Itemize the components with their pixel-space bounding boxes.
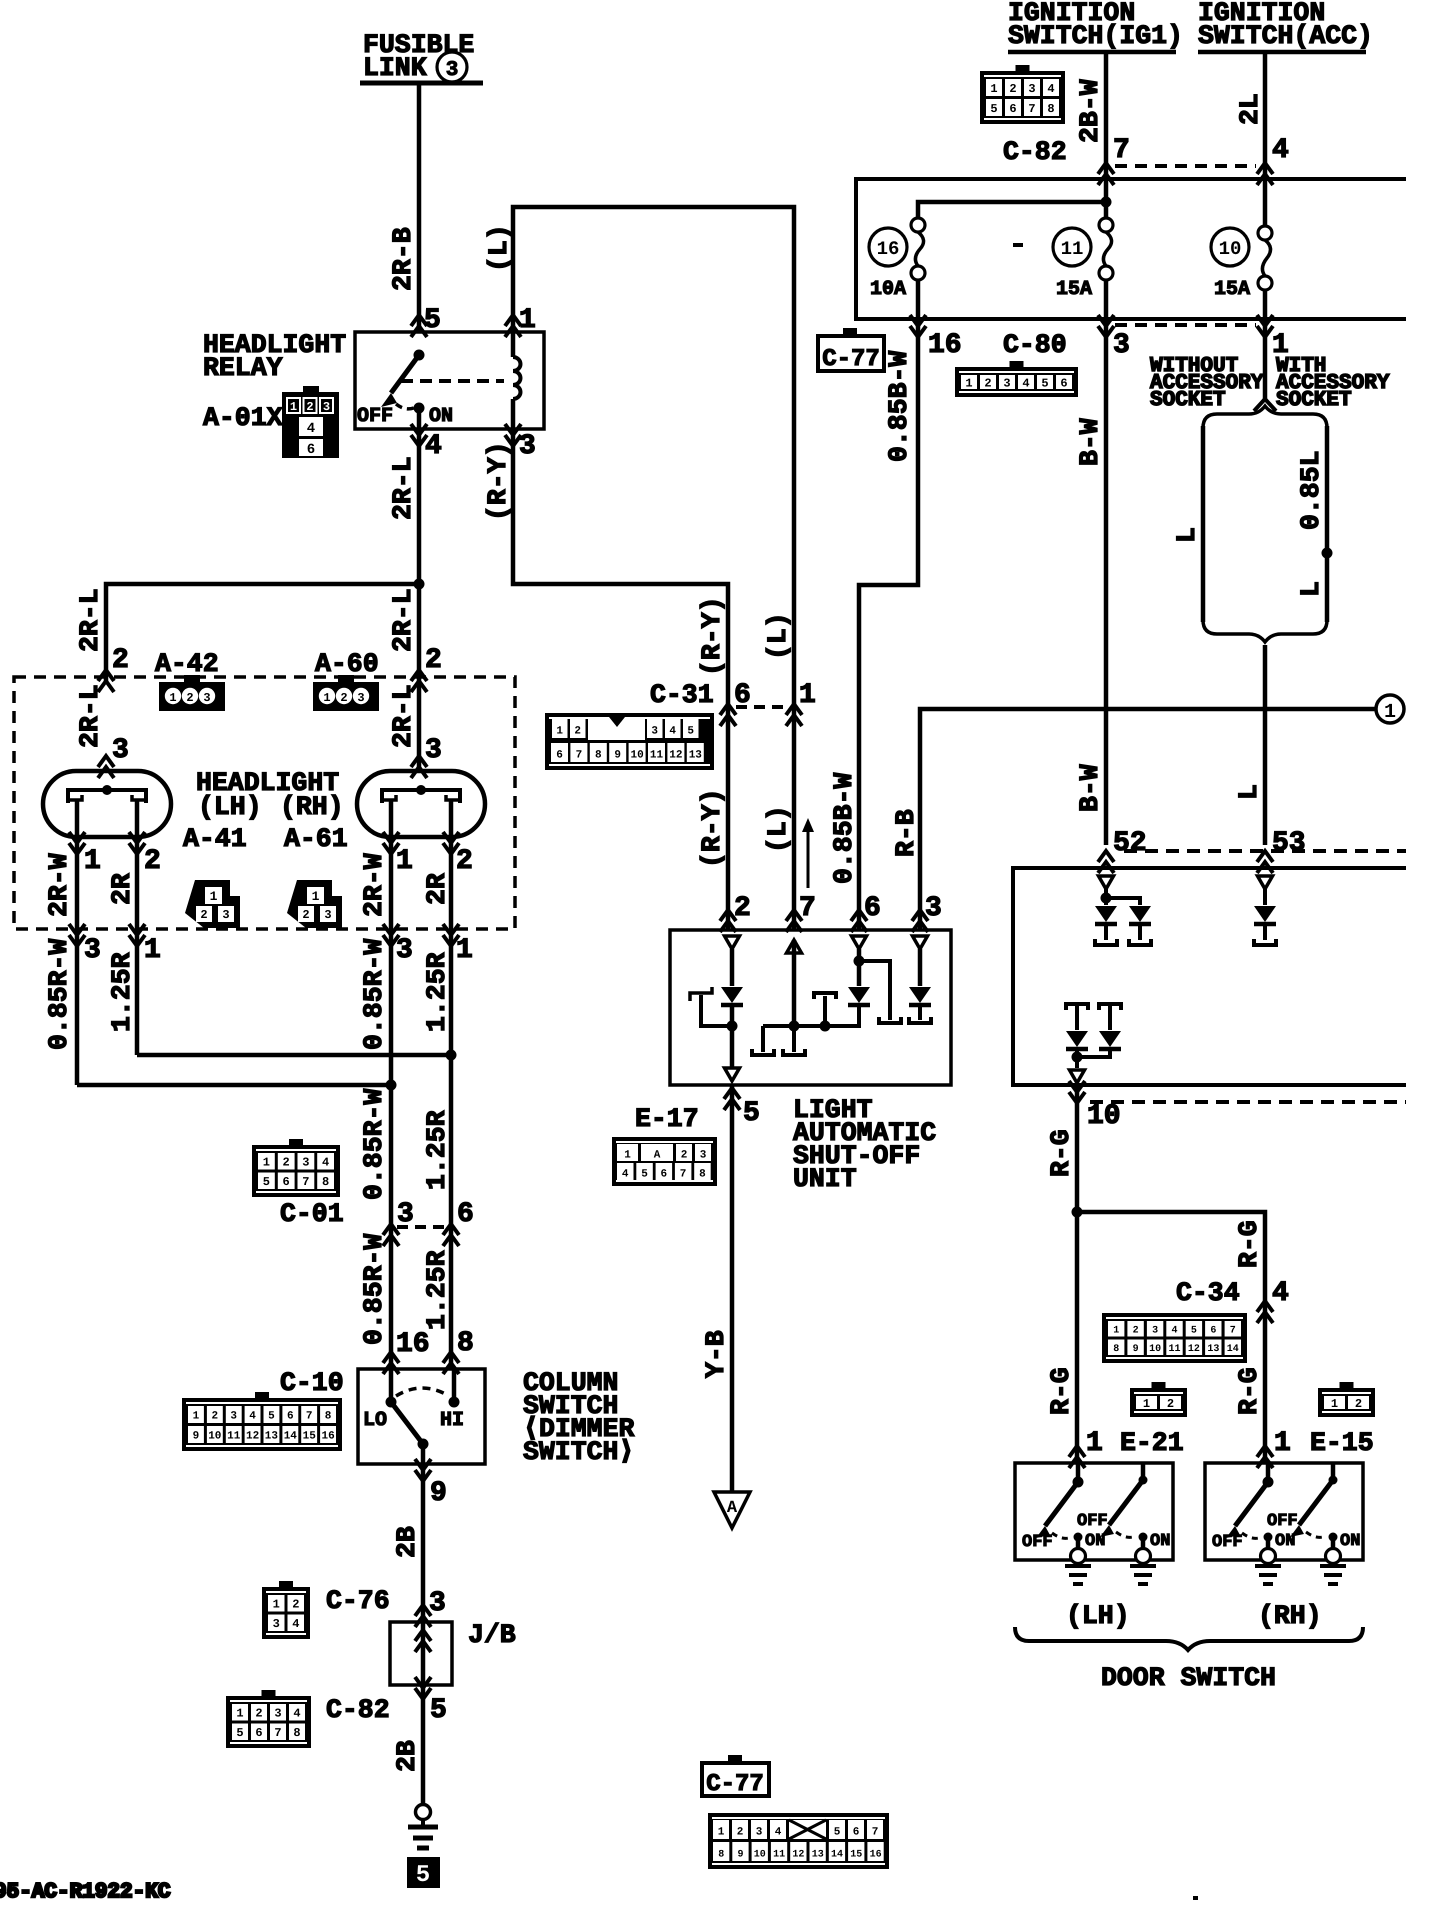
pin 3 of lamp dashed box RH: [383, 924, 399, 946]
wire 1.25R merge LH to RH: [137, 1053, 451, 1058]
svg-text:UNIT: UNIT: [793, 1164, 857, 1194]
pin 3 exit of junction block: [1098, 315, 1114, 337]
dashed edge of ETACS lower: [1090, 1100, 1406, 1104]
ETACS internal lower diode pair: [1066, 1004, 1088, 1010]
svg-text:7: 7: [872, 1827, 879, 1839]
wire 2R-L relay pin 4 down to junction: [417, 429, 422, 584]
wire (R-Y) from relay pin 3: [513, 429, 728, 930]
wire 2R-L right branch down: [417, 584, 422, 771]
connector C-82 lower icon: [226, 1696, 311, 1748]
svg-text:2B: 2B: [392, 1526, 422, 1558]
svg-text:J/B: J/B: [468, 1620, 516, 1650]
shut-off unit internal pin6 branch: [852, 936, 867, 949]
svg-text:1: 1: [990, 82, 997, 96]
svg-text:2: 2: [456, 846, 473, 877]
svg-text:6: 6: [255, 1726, 262, 1740]
wire 2R headlight RH pin2: [449, 837, 454, 1055]
svg-text:(LH): (LH): [1066, 1601, 1130, 1631]
svg-text:(L): (L): [763, 805, 793, 853]
svg-text:6: 6: [307, 442, 315, 458]
svg-text:2: 2: [211, 1411, 218, 1423]
svg-text:5: 5: [263, 1175, 270, 1189]
pin 3 of lamp dashed box LH: [69, 924, 85, 946]
svg-text:8: 8: [1113, 1344, 1119, 1355]
svg-text:10A: 10A: [870, 278, 906, 301]
svg-text:8: 8: [322, 1175, 329, 1189]
svg-text:1: 1: [84, 846, 101, 877]
svg-text:13: 13: [1207, 1344, 1219, 1355]
svg-text:4: 4: [1272, 135, 1289, 166]
wire from pin 1 to option split: [1263, 319, 1268, 399]
pin 5 of shut-off unit: [724, 1088, 740, 1110]
wire 2R-B from fusible link to relay pin 5: [417, 83, 422, 332]
svg-text:2: 2: [340, 691, 347, 705]
svg-text:R-G: R-G: [1046, 1367, 1076, 1415]
svg-text:5: 5: [236, 1726, 243, 1740]
svg-text:SOCKET: SOCKET: [1150, 389, 1226, 412]
door switch LH box: [1015, 1463, 1173, 1560]
wire 2R headlight LH pin2: [135, 837, 140, 1055]
svg-text:Y-B: Y-B: [701, 1330, 731, 1378]
svg-text:HI: HI: [440, 1409, 464, 1432]
svg-text:14: 14: [1227, 1344, 1239, 1355]
svg-text:LINK: LINK: [363, 53, 427, 83]
svg-text:9: 9: [737, 1850, 743, 1861]
svg-text:2R-W: 2R-W: [359, 853, 389, 917]
option wire L without socket: [1201, 426, 1206, 622]
svg-text:(L): (L): [484, 224, 514, 272]
svg-text:11: 11: [650, 750, 664, 762]
svg-text:C-80: C-80: [1003, 330, 1067, 360]
svg-text:2: 2: [306, 400, 313, 414]
svg-text:1: 1: [1113, 1325, 1119, 1336]
stray mark: [1013, 243, 1023, 247]
svg-text:1: 1: [556, 726, 563, 738]
svg-text:7: 7: [302, 1175, 309, 1189]
svg-text:1: 1: [456, 935, 473, 966]
diode D2 in shut-off unit: [848, 987, 870, 1003]
svg-text:4: 4: [307, 421, 315, 437]
svg-text:R-B: R-B: [891, 809, 921, 857]
svg-text:1: 1: [312, 889, 320, 904]
svg-text:(R-Y): (R-Y): [483, 441, 513, 521]
svg-text:5: 5: [641, 1169, 648, 1181]
wire (L) from relay pin 1 to shut-off unit pin 7: [513, 207, 794, 930]
svg-text:4: 4: [775, 1827, 782, 1839]
svg-text:3: 3: [1028, 82, 1035, 96]
svg-text:A: A: [727, 1499, 738, 1518]
svg-text:ON: ON: [429, 405, 453, 428]
svg-text:2: 2: [282, 1156, 289, 1170]
svg-text:15: 15: [303, 1431, 317, 1443]
svg-text:2R-L: 2R-L: [75, 684, 105, 748]
svg-text:C-34: C-34: [1176, 1278, 1240, 1308]
node 1 circle: [1376, 695, 1404, 723]
svg-text:R-G: R-G: [1234, 1220, 1264, 1268]
svg-text:1: 1: [169, 691, 176, 705]
svg-text:1: 1: [236, 1707, 243, 1721]
svg-text:16: 16: [396, 1329, 430, 1360]
svg-text:3: 3: [273, 1617, 280, 1631]
pin 1 of lamp dashed box RH2: [443, 924, 459, 946]
svg-text:1.25R: 1.25R: [422, 952, 452, 1032]
svg-text:A-01X: A-01X: [203, 403, 283, 433]
svg-text:E-17: E-17: [635, 1104, 699, 1134]
svg-text:9: 9: [614, 750, 621, 762]
svg-text:3: 3: [203, 691, 210, 705]
svg-text:C-77: C-77: [706, 1771, 764, 1798]
svg-text:2B-W: 2B-W: [1075, 79, 1105, 143]
door switch group brace: [1015, 1627, 1363, 1650]
light automatic shut-off unit box: [670, 930, 951, 1085]
svg-text:1: 1: [263, 1156, 270, 1170]
dashed edge of ETACS upper: [1124, 849, 1406, 853]
dimmer switch internals: [389, 1369, 394, 1402]
wire 1.25R down to dimmer switch: [449, 1055, 454, 1369]
svg-text:1: 1: [193, 1411, 200, 1423]
dashed link IG1-ACC: [1115, 164, 1256, 168]
svg-text:4: 4: [622, 1169, 629, 1181]
svg-text:8: 8: [457, 1328, 474, 1359]
headlight LH bulb A-41: [43, 771, 171, 837]
svg-text:7: 7: [680, 1169, 687, 1181]
svg-text:3: 3: [651, 726, 658, 738]
svg-text:3: 3: [324, 908, 331, 922]
dashed option box around headlights: [14, 677, 515, 929]
connector C-80 icon: [955, 367, 1078, 397]
connector icon A-01X: [282, 392, 339, 458]
svg-text:1: 1: [1274, 1428, 1291, 1459]
fuse 10: [1258, 226, 1272, 240]
svg-text:16: 16: [321, 1431, 334, 1443]
svg-text:1.25R: 1.25R: [107, 952, 137, 1032]
pin 5 below J/B: [415, 1677, 431, 1699]
svg-text:L: L: [1296, 581, 1326, 597]
junction dot on 0.85L wire: [1322, 548, 1333, 559]
svg-text:14: 14: [284, 1431, 298, 1443]
svg-text:3: 3: [396, 935, 413, 966]
svg-text:B-W: B-W: [1075, 418, 1105, 466]
svg-text:OFF: OFF: [1212, 1533, 1243, 1552]
svg-text:16: 16: [870, 1850, 882, 1861]
svg-text:1: 1: [965, 376, 972, 390]
svg-text:4: 4: [1171, 1325, 1177, 1336]
svg-text:3: 3: [756, 1827, 763, 1839]
svg-text:2R-L: 2R-L: [388, 456, 418, 520]
svg-text:13: 13: [265, 1431, 279, 1443]
svg-text:3: 3: [1113, 330, 1130, 361]
svg-text:2: 2: [292, 1598, 299, 1612]
svg-text:7: 7: [274, 1726, 281, 1740]
svg-text:C-10: C-10: [280, 1368, 344, 1398]
svg-text:1: 1: [718, 1827, 725, 1839]
svg-text:5: 5: [834, 1827, 841, 1839]
svg-text:3: 3: [302, 1156, 309, 1170]
svg-text:LO: LO: [363, 1409, 387, 1432]
svg-text:R-G: R-G: [1234, 1367, 1264, 1415]
svg-text:2R-L: 2R-L: [75, 588, 105, 652]
svg-text:8: 8: [293, 1726, 300, 1740]
svg-text:10: 10: [754, 1850, 766, 1861]
dashed link C-01 pins: [397, 1225, 445, 1229]
svg-text:10: 10: [1149, 1344, 1161, 1355]
svg-text:7: 7: [576, 750, 583, 762]
internal output arrow to pin 5: [725, 1068, 740, 1081]
svg-text:A-60: A-60: [315, 649, 379, 679]
svg-text:16: 16: [928, 330, 962, 361]
pin 10 of ETACS: [1069, 1081, 1085, 1103]
svg-text:15A: 15A: [1056, 278, 1092, 301]
svg-text:2: 2: [737, 1827, 744, 1839]
svg-text:3: 3: [1152, 1325, 1158, 1336]
svg-text:6: 6: [853, 1827, 860, 1839]
svg-text:5: 5: [430, 1695, 447, 1726]
svg-text:2R-L: 2R-L: [388, 684, 418, 748]
svg-text:5: 5: [416, 1862, 430, 1889]
connector icon A-41: [185, 880, 240, 928]
svg-text:11: 11: [1061, 238, 1084, 260]
svg-text:2R-L: 2R-L: [388, 588, 418, 652]
connector C-77 upper box: [818, 336, 884, 371]
svg-text:9: 9: [1133, 1344, 1139, 1355]
fuse 11: [1104, 218, 1109, 219]
connector C-82 upper icon: [980, 71, 1065, 124]
svg-text:12: 12: [1188, 1344, 1200, 1355]
svg-text:6: 6: [287, 1411, 294, 1423]
connector C-77 lower box: [702, 1763, 769, 1796]
svg-text:0.85R-W: 0.85R-W: [359, 1234, 389, 1345]
svg-text:53: 53: [1272, 828, 1306, 859]
wire Y-B from shut-off unit: [730, 1085, 735, 1492]
svg-text:2: 2: [1133, 1325, 1139, 1336]
svg-text:5: 5: [1191, 1325, 1197, 1336]
svg-text:5: 5: [268, 1411, 275, 1423]
svg-text:10: 10: [1219, 238, 1242, 260]
svg-text:A-42: A-42: [155, 649, 219, 679]
svg-text:SWITCH⟩: SWITCH⟩: [523, 1437, 634, 1467]
svg-text:1.25R: 1.25R: [422, 1110, 452, 1190]
svg-text:B-W: B-W: [1075, 764, 1105, 812]
internal hook symbols: [761, 1026, 765, 1052]
svg-text:2: 2: [984, 376, 991, 390]
svg-text:L: L: [1172, 527, 1202, 543]
wire 0.85R-W down to dimmer switch: [389, 1085, 394, 1369]
svg-text:4: 4: [1272, 1278, 1289, 1309]
svg-text:13: 13: [689, 750, 703, 762]
svg-text:1.25R: 1.25R: [422, 1250, 452, 1330]
shut-off unit internal input pin2: [725, 936, 740, 949]
svg-text:(R-Y): (R-Y): [697, 788, 727, 868]
pin 1 of headlight LH: [69, 832, 85, 854]
door switch RH box: [1205, 1463, 1363, 1560]
svg-text:2R-W: 2R-W: [44, 853, 74, 917]
svg-text:2: 2: [1167, 1397, 1174, 1411]
relay internal switch: [414, 350, 425, 361]
option wire 0.85L with socket: [1325, 426, 1330, 622]
ETACS unit box: [1013, 868, 1406, 1085]
svg-text:OFF: OFF: [357, 405, 393, 428]
svg-text:1: 1: [1331, 1397, 1338, 1411]
svg-text:8: 8: [1047, 102, 1054, 116]
fuse 16: [911, 218, 925, 232]
svg-text:(R-Y): (R-Y): [697, 596, 727, 676]
svg-text:2: 2: [302, 908, 309, 922]
svg-text:OFF: OFF: [1077, 1512, 1108, 1531]
svg-text:2: 2: [186, 691, 193, 705]
svg-text:1: 1: [1086, 1428, 1103, 1459]
wire 2B to ground: [421, 1685, 426, 1806]
svg-text:R-G: R-G: [1046, 1129, 1076, 1177]
dashed link C-31 pins: [736, 705, 786, 709]
internal bracket left of D1: [701, 995, 732, 1026]
shut-off unit internal pin3 branch: [913, 936, 928, 949]
pin 1 exit of junction block: [1257, 315, 1273, 337]
dashed link C-80 pins: [1115, 323, 1256, 327]
svg-text:A-61: A-61: [284, 824, 348, 854]
svg-text:ON: ON: [1340, 1532, 1360, 1551]
svg-text:1: 1: [396, 846, 413, 877]
svg-text:7: 7: [1230, 1325, 1236, 1336]
wire L continues down: [1263, 645, 1268, 845]
svg-text:(L): (L): [763, 612, 793, 660]
pin 16 exit of junction block: [910, 315, 926, 337]
headlight relay box A-01X: [355, 332, 544, 429]
wire R-G from ETACS: [1075, 1085, 1080, 1463]
svg-text:13: 13: [812, 1850, 824, 1861]
svg-text:C-77: C-77: [822, 346, 880, 373]
svg-text:3: 3: [230, 1411, 237, 1423]
svg-text:C-82: C-82: [326, 1695, 390, 1725]
svg-text:11: 11: [773, 1850, 785, 1861]
junction dot R-G split: [1072, 1207, 1083, 1218]
diode D3 in shut-off unit: [909, 987, 931, 1003]
svg-text:14: 14: [831, 1850, 843, 1861]
svg-text:OFF: OFF: [1267, 1512, 1298, 1531]
svg-text:E-15: E-15: [1310, 1428, 1374, 1458]
wire R-G branch to RH door switch: [1077, 1212, 1265, 1463]
svg-text:8: 8: [595, 750, 602, 762]
svg-text:1: 1: [519, 305, 536, 336]
option split brace top: [1203, 406, 1327, 428]
svg-text:A-41: A-41: [183, 824, 247, 854]
svg-text:7: 7: [1113, 135, 1130, 166]
wire 0.85R-W merge LH to RH: [77, 1083, 391, 1088]
svg-text:1: 1: [1384, 701, 1396, 724]
svg-text:2B: 2B: [392, 1740, 422, 1772]
connector C-10 icon: [182, 1398, 342, 1451]
svg-text:1: 1: [323, 691, 330, 705]
connector icon A-61: [287, 880, 342, 928]
wire 2L from ACC: [1263, 54, 1268, 227]
svg-text:2R: 2R: [107, 873, 137, 905]
svg-text:3: 3: [112, 735, 129, 766]
svg-text:6: 6: [457, 1199, 474, 1230]
svg-text:SWITCH(ACC): SWITCH(ACC): [1198, 21, 1373, 51]
jump arrow A: [714, 1492, 750, 1528]
svg-text:6: 6: [660, 1169, 667, 1181]
svg-text:4: 4: [293, 1707, 300, 1721]
svg-text:16: 16: [877, 238, 900, 260]
connector C-77 lower icon: [708, 1813, 889, 1869]
svg-text:0.85L: 0.85L: [1296, 450, 1326, 530]
svg-text:3: 3: [425, 735, 442, 766]
svg-text:2: 2: [200, 908, 207, 922]
headlight RH bulb A-61: [357, 771, 485, 837]
svg-text:4: 4: [292, 1617, 299, 1631]
wire to node 1 horizontal: [920, 709, 1376, 930]
svg-text:10: 10: [208, 1431, 221, 1443]
svg-text:9: 9: [430, 1478, 447, 1509]
svg-text:0.85B-W: 0.85B-W: [829, 773, 859, 884]
junction of 2R-L wire: [414, 579, 425, 590]
svg-text:95-AC-R1922-KC: 95-AC-R1922-KC: [0, 1881, 171, 1904]
pin 1 of lamp dashed box LH2: [129, 924, 145, 946]
svg-text:2: 2: [1355, 1397, 1362, 1411]
connector E-21 icon: [1130, 1388, 1187, 1417]
wire B-W from fuse 11: [1104, 319, 1109, 845]
svg-text:3: 3: [446, 59, 459, 82]
column switch dimmer switch box: [358, 1369, 485, 1464]
svg-text:5: 5: [743, 1098, 760, 1129]
connector E-15 icon: [1318, 1388, 1375, 1417]
svg-text:1: 1: [144, 935, 161, 966]
svg-text:OFF: OFF: [1022, 1533, 1053, 1552]
connector C-34 icon: [1102, 1313, 1247, 1363]
junction dot IG1 branch: [1101, 197, 1112, 208]
svg-text:12: 12: [246, 1431, 259, 1443]
svg-text:4: 4: [1047, 82, 1054, 96]
svg-text:4: 4: [669, 726, 676, 738]
svg-text:6: 6: [282, 1175, 289, 1189]
svg-text:2L: 2L: [1235, 93, 1265, 125]
svg-text:15: 15: [850, 1850, 862, 1861]
svg-text:(RH): (RH): [1258, 1601, 1322, 1631]
svg-text:3: 3: [323, 400, 330, 414]
svg-text:2: 2: [144, 846, 161, 877]
svg-text:4: 4: [249, 1411, 256, 1423]
svg-text:(RH): (RH): [280, 792, 344, 822]
svg-text:8: 8: [718, 1850, 724, 1861]
svg-text:(LH): (LH): [198, 792, 262, 822]
svg-text:C-31: C-31: [650, 680, 714, 710]
wire 2R-W headlight LH pin1: [75, 837, 80, 1085]
svg-text:A: A: [654, 1150, 661, 1162]
svg-text:10: 10: [630, 750, 643, 762]
svg-text:3: 3: [84, 935, 101, 966]
svg-text:11: 11: [227, 1431, 241, 1443]
svg-text:0.85R-W: 0.85R-W: [359, 939, 389, 1050]
svg-text:9: 9: [193, 1431, 200, 1443]
ETACS internal diode under 53: [1258, 876, 1273, 889]
svg-text:E-21: E-21: [1120, 1428, 1184, 1458]
svg-text:1: 1: [210, 889, 218, 904]
svg-text:3: 3: [222, 908, 229, 922]
svg-text:0.85B-W: 0.85B-W: [884, 351, 914, 462]
ETACS internal diode pair under 52: [1099, 876, 1114, 889]
wire 0.85B-W from fuse 16: [859, 319, 918, 930]
svg-text:2: 2: [1009, 82, 1016, 96]
connector C-31 icon: [545, 713, 714, 770]
signal direction arrow: [807, 828, 810, 888]
svg-text:C-82: C-82: [1003, 137, 1067, 167]
svg-text:2R-B: 2R-B: [388, 227, 418, 291]
svg-text:3: 3: [274, 1707, 281, 1721]
svg-text:1: 1: [624, 1150, 631, 1162]
svg-text:1: 1: [273, 1598, 280, 1612]
junction block box with fuses: [856, 179, 1406, 319]
connector C-76 icon: [262, 1587, 310, 1639]
svg-text:0.85R-W: 0.85R-W: [44, 939, 74, 1050]
